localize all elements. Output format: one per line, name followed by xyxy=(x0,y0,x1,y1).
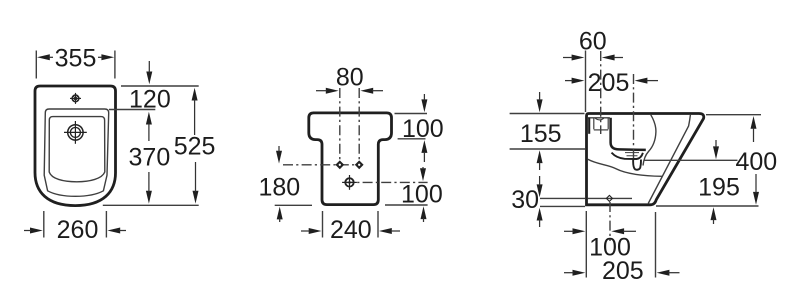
dim 260 extension line left xyxy=(43,211,45,238)
centerline fixing hole left xyxy=(339,88,341,169)
faucet hole symbol xyxy=(64,121,87,144)
tap hole symbol xyxy=(70,93,81,104)
fixing hole marker left xyxy=(335,160,344,169)
side-view fixing hole marker xyxy=(606,195,612,201)
dim 355 arrow left xyxy=(37,54,53,60)
dim 80 arrow right-side xyxy=(360,88,383,94)
side-view tap recess bottom xyxy=(594,129,608,131)
dim 30 arrow up xyxy=(537,208,543,227)
ref line rim shelf level xyxy=(510,148,585,150)
dim 370 arrow down xyxy=(146,172,152,204)
side-view tap hole dish xyxy=(595,118,604,120)
svg-text:205: 205 xyxy=(588,69,630,97)
centerline horizontal holes xyxy=(283,164,363,166)
dim 400 arrow down xyxy=(753,174,759,205)
dim 100c arrow right-side xyxy=(611,228,636,234)
ref line underside level xyxy=(644,159,738,161)
svg-text:355: 355 xyxy=(55,45,97,73)
dim 80 arrow left-side xyxy=(316,88,339,94)
dim 30 arrow down xyxy=(537,176,543,197)
centerline bottom fixing hole xyxy=(609,202,611,241)
drain hole marker xyxy=(342,175,357,190)
bidet top-view body outline xyxy=(35,86,116,206)
side-view tap recess inner left xyxy=(593,118,595,130)
dim 100c extension line xyxy=(585,211,587,278)
top-view bowl line xyxy=(49,117,105,182)
centerline drain vertical xyxy=(633,74,635,160)
side-view drain mid line lower xyxy=(627,155,638,157)
dim 355 extension line right xyxy=(114,51,116,79)
dim 260 arrow left-side xyxy=(24,228,43,234)
bidet side-view body outline xyxy=(587,114,704,205)
dim 260 extension line right xyxy=(105,211,107,238)
side-view rim top line xyxy=(588,117,610,119)
dim 60 arrow right-side xyxy=(602,55,623,61)
fixing hole marker right xyxy=(355,160,364,169)
svg-text:155: 155 xyxy=(520,120,562,148)
dim 205t arrow right-side xyxy=(635,78,658,84)
ref line front bottom level xyxy=(385,204,428,206)
ref line bottom level xyxy=(103,204,199,206)
dim 155 arrow up xyxy=(537,150,543,170)
svg-text:260: 260 xyxy=(57,216,99,244)
svg-text:60: 60 xyxy=(579,28,607,56)
dim 180 arrow up xyxy=(277,207,283,222)
dim 260 arrow right-side xyxy=(107,228,126,234)
dim 180 arrow down xyxy=(276,146,282,164)
dim 195 arrow down xyxy=(713,140,719,159)
dim 205t arrow left-side xyxy=(565,78,584,84)
svg-text:205: 205 xyxy=(602,257,644,285)
dim 100a arrow down xyxy=(421,94,427,112)
side-view drain trap pocket xyxy=(633,160,641,170)
dim 100c arrow left-side xyxy=(564,228,585,234)
ref line side bottom right xyxy=(656,205,759,207)
centerline horizontal drain xyxy=(344,181,428,183)
side-view bowl far wall curve xyxy=(643,115,656,166)
dim 205b arrow left-side xyxy=(564,270,585,276)
ref line top edge level xyxy=(121,85,199,87)
dim 355 arrow right xyxy=(98,54,114,60)
dim 100b arrow up xyxy=(421,206,427,222)
side-view drain step contour xyxy=(612,153,643,159)
ref line side bottom left xyxy=(540,205,585,207)
dim 205b arrow right-side xyxy=(657,270,680,276)
centerline tap vertical xyxy=(600,51,602,134)
dim 100b arrow down xyxy=(420,167,426,181)
svg-text:525: 525 xyxy=(174,132,216,160)
dim 205b extension line xyxy=(655,212,657,278)
dim 525 arrow down xyxy=(193,162,199,204)
dim 400 arrow up xyxy=(751,116,757,142)
side-view bowl underside curve xyxy=(588,159,663,176)
svg-text:195: 195 xyxy=(698,173,740,201)
ref line shoulder level xyxy=(398,138,426,140)
bidet front-view outline xyxy=(309,113,392,205)
side-view tap recess inner right xyxy=(607,118,609,130)
dim 155 arrow down xyxy=(537,92,543,112)
ref line front top level xyxy=(395,113,428,115)
svg-text:180: 180 xyxy=(258,173,300,201)
svg-text:400: 400 xyxy=(735,148,777,176)
side-view tap recess left wall xyxy=(588,118,590,134)
dim 120 arrow up xyxy=(146,112,152,141)
dim 120 arrow down xyxy=(146,61,152,84)
svg-text:240: 240 xyxy=(330,216,372,244)
dim 525 arrow up xyxy=(192,88,198,135)
svg-text:120: 120 xyxy=(129,86,171,114)
side-view bowl back profile xyxy=(611,118,646,150)
svg-text:80: 80 xyxy=(336,63,364,91)
dim 60 extension line xyxy=(585,51,587,113)
ref line fixing hole level left xyxy=(540,197,585,199)
ref line side top right xyxy=(706,114,761,116)
dim 240 extension line left xyxy=(322,211,324,238)
ref line stem bottom left xyxy=(275,204,312,206)
svg-text:30: 30 xyxy=(511,186,539,214)
dim 240 extension line right xyxy=(377,211,379,238)
side-view front inner edge line xyxy=(648,115,690,204)
dim 60 arrow left-side xyxy=(563,55,584,61)
centerline fixing hole right xyxy=(358,88,360,169)
side-view fixing hole line xyxy=(588,197,632,199)
dim 100a arrow up xyxy=(421,140,427,162)
ref line rim level xyxy=(109,109,155,111)
dim 195 arrow up xyxy=(711,207,717,224)
dim 240 arrow right-side xyxy=(379,228,400,234)
ref line side top level xyxy=(510,113,585,115)
dim 355 extension line left xyxy=(35,51,37,79)
svg-text:370: 370 xyxy=(129,143,171,171)
side-view drain mid line upper xyxy=(625,152,639,154)
top-view inner rim line xyxy=(44,109,109,196)
dim 240 arrow left-side xyxy=(301,228,322,234)
